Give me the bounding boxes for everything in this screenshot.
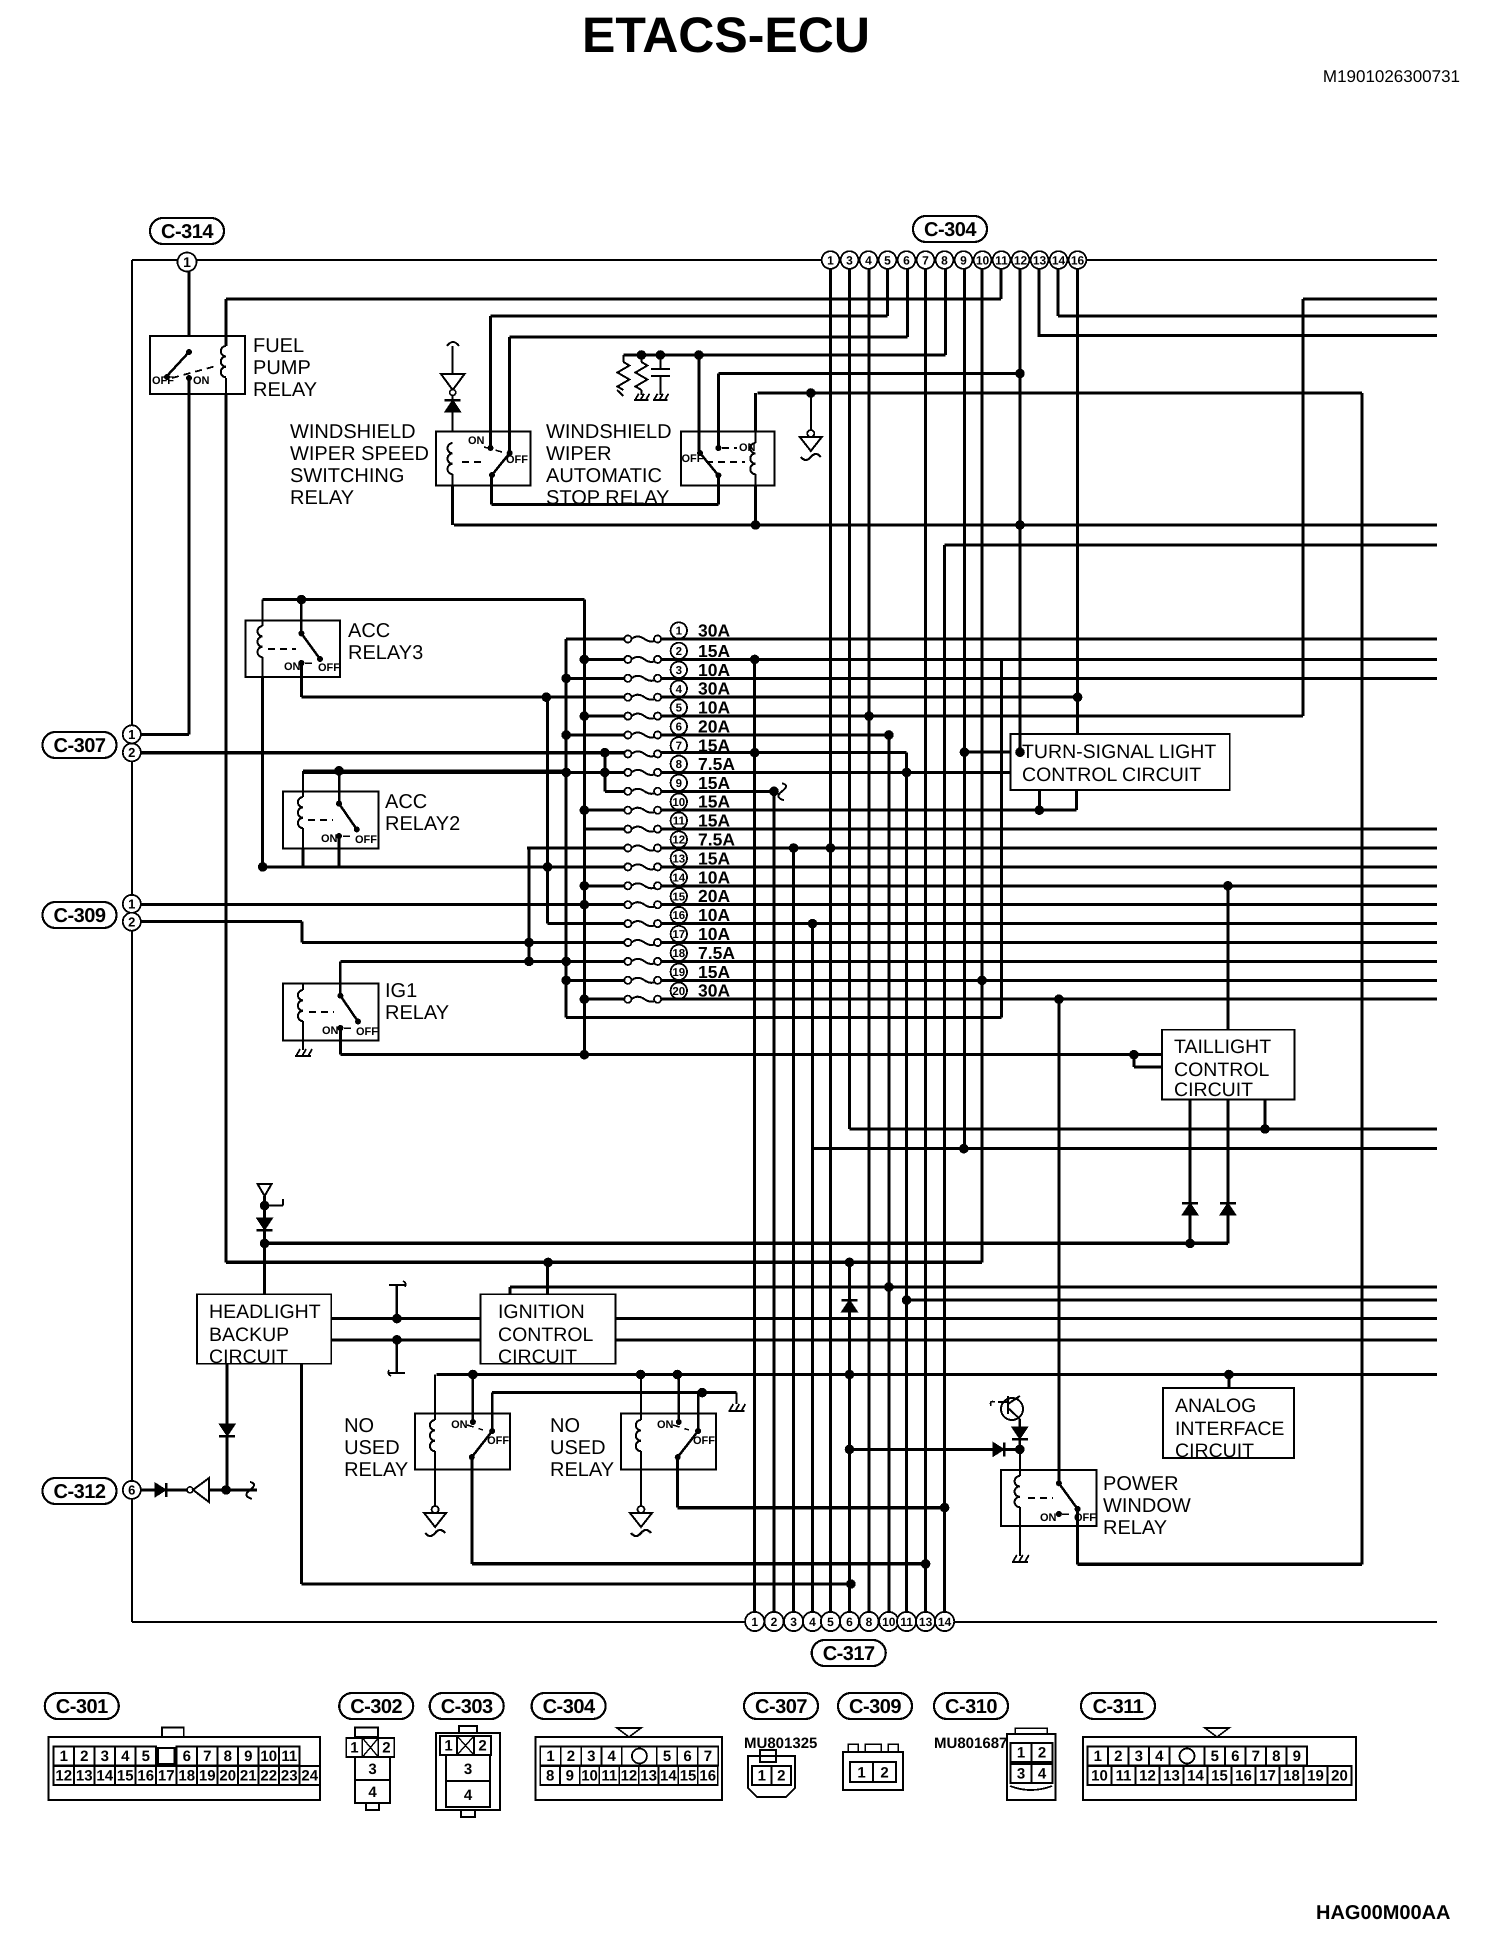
svg-text:RELAY3: RELAY3 xyxy=(348,642,423,664)
wire taillight feeder xyxy=(1226,886,1229,1030)
svg-text:WINDSHIELD: WINDSHIELD xyxy=(546,421,672,443)
relay K8 coil xyxy=(1012,1449,1029,1562)
connector C-307 pinout xyxy=(748,1750,795,1797)
wire y1449 run xyxy=(845,1442,1025,1456)
svg-text:4: 4 xyxy=(464,1787,473,1804)
svg-text:SWITCHING: SWITCHING xyxy=(290,465,404,487)
wire C-312 line xyxy=(141,1478,257,1502)
svg-text:12: 12 xyxy=(672,835,685,847)
svg-text:1: 1 xyxy=(350,1740,358,1757)
relay K1 coil xyxy=(221,299,226,1262)
wire ignition feeder xyxy=(546,1262,549,1294)
svg-text:ANALOG: ANALOG xyxy=(1175,1395,1256,1417)
svg-text:4: 4 xyxy=(368,1784,377,1801)
wire x1303 riser (fuse5 to y299) xyxy=(1302,299,1305,716)
wire fuse6 left xyxy=(561,730,624,740)
wire headlight right drop xyxy=(301,1364,855,1589)
connector label C-310 pinout label xyxy=(934,1693,1008,1719)
svg-text:ON: ON xyxy=(322,1025,339,1037)
connector label C-303 xyxy=(430,1693,504,1719)
svg-text:3: 3 xyxy=(587,1748,595,1765)
svg-text:2: 2 xyxy=(880,1765,888,1782)
svg-text:5: 5 xyxy=(1211,1748,1219,1765)
relay K3 switch xyxy=(682,442,756,478)
svg-text:USED: USED xyxy=(550,1437,606,1459)
wire fuse11 left xyxy=(584,828,624,831)
node C-309 pin 1 xyxy=(123,895,141,913)
svg-text:C-302: C-302 xyxy=(350,1696,402,1718)
svg-text:C-311: C-311 xyxy=(1093,1696,1144,1718)
svg-text:12: 12 xyxy=(1139,1768,1156,1785)
fuse F1 30A xyxy=(624,635,631,642)
fuse F19 15A xyxy=(624,977,631,984)
svg-text:WIPER SPEED: WIPER SPEED xyxy=(290,443,429,465)
svg-text:3: 3 xyxy=(846,253,853,267)
wire C-317 pin1 riser xyxy=(753,659,756,1612)
svg-text:11: 11 xyxy=(1116,1768,1132,1785)
relay K5 switch xyxy=(308,771,377,846)
resistor R2 xyxy=(634,350,649,400)
svg-text:3: 3 xyxy=(1017,1766,1025,1783)
svg-text:8: 8 xyxy=(676,759,683,771)
wire ACC relay2 top run xyxy=(303,766,566,776)
wire C-317 pin10 riser xyxy=(887,735,890,1612)
wire turn-signal bottom stubs xyxy=(1039,790,1076,810)
label IG1 RELAY xyxy=(385,980,449,1024)
relay K3 ON feed xyxy=(717,374,720,449)
svg-text:2: 2 xyxy=(1038,1745,1046,1762)
wire y299 right segment xyxy=(1303,298,1437,301)
node C-304 pin 14 xyxy=(1050,251,1068,269)
wire no-used pivot run xyxy=(492,1388,736,1398)
relay K4 coil xyxy=(257,600,262,867)
wire C-314 pin1 to fuel pump relay xyxy=(188,271,191,336)
relay K2 WINDSHIELD WIPER SPEED SWITCHING RELAY box xyxy=(436,432,531,486)
svg-text:14: 14 xyxy=(672,872,685,884)
relay K7-2 coil xyxy=(630,1375,652,1537)
svg-text:1: 1 xyxy=(758,1768,766,1785)
svg-text:13: 13 xyxy=(76,1768,93,1785)
relay K6 IG1 RELAY box xyxy=(283,983,378,1040)
svg-text:6: 6 xyxy=(1231,1748,1239,1765)
svg-text:2: 2 xyxy=(1114,1748,1122,1765)
svg-text:RELAY2: RELAY2 xyxy=(385,813,460,835)
svg-text:NO: NO xyxy=(344,1415,374,1437)
svg-text:NO: NO xyxy=(550,1415,580,1437)
svg-text:14: 14 xyxy=(660,1768,677,1785)
node C-304 pin 8 xyxy=(936,251,954,269)
wire C-317 pin14 riser xyxy=(943,545,946,1612)
connector label C-314 xyxy=(150,218,224,244)
wire taillight third pin xyxy=(1264,1099,1267,1129)
svg-text:1: 1 xyxy=(857,1765,865,1782)
relay K3 coil xyxy=(750,393,760,530)
junction y523 crossing dot xyxy=(1019,522,1021,524)
fuse F9 15A xyxy=(624,788,631,795)
svg-text:13: 13 xyxy=(1033,253,1047,267)
svg-text:RELAY: RELAY xyxy=(253,379,317,401)
svg-text:19: 19 xyxy=(672,967,685,979)
wire feeder A x566 xyxy=(566,639,1001,1017)
capacitor C1 xyxy=(651,350,670,400)
svg-text:3: 3 xyxy=(368,1761,376,1778)
connector label C-304 xyxy=(913,216,987,242)
svg-text:C-317: C-317 xyxy=(823,1643,875,1665)
wire fuse14 right xyxy=(661,881,1437,891)
svg-text:1: 1 xyxy=(1094,1748,1102,1765)
node C-304 pin 10 xyxy=(974,251,992,269)
connector label C-309 pinout label xyxy=(838,1693,912,1719)
svg-text:ON: ON xyxy=(451,1419,468,1431)
wire y1300 run xyxy=(902,1295,1437,1305)
svg-text:8: 8 xyxy=(866,1615,873,1629)
wire fuse5 left xyxy=(580,711,625,721)
relay K5 ACC RELAY 2 box xyxy=(283,791,378,848)
svg-text:6: 6 xyxy=(183,1748,191,1765)
stub lower capacitor mark xyxy=(388,1340,405,1376)
fuse F12 7.5A xyxy=(624,844,631,851)
svg-text:ON: ON xyxy=(321,833,338,845)
svg-text:14: 14 xyxy=(96,1768,113,1785)
wire wiper coil return xyxy=(454,524,1437,527)
node C-307 pin 1 xyxy=(123,725,141,743)
svg-text:11: 11 xyxy=(900,1615,913,1629)
wire feeder E x529 xyxy=(524,848,534,966)
svg-text:ON: ON xyxy=(193,375,210,387)
wire C-304 pin6 drop xyxy=(906,269,909,337)
wire pin8 feed (wiper stop RC) xyxy=(623,353,945,356)
svg-text:6: 6 xyxy=(846,1615,853,1629)
svg-text:AUTOMATIC: AUTOMATIC xyxy=(546,465,662,487)
wire x1001 riser xyxy=(1000,659,1003,1017)
relay K5 coil xyxy=(298,771,303,867)
svg-text:14: 14 xyxy=(1052,253,1066,267)
svg-text:WINDOW: WINDOW xyxy=(1103,1495,1191,1517)
svg-text:RELAY: RELAY xyxy=(385,1002,449,1024)
svg-text:11: 11 xyxy=(995,253,1008,267)
connector label C-307 xyxy=(43,732,117,758)
connector label C-312 xyxy=(43,1478,117,1504)
svg-text:8: 8 xyxy=(941,253,948,267)
wire fuse6 right xyxy=(661,730,893,740)
wire pin6 feed (wiper speed OFF) xyxy=(510,336,908,339)
fuse F2 15A xyxy=(624,656,631,663)
node C-312 pin 6 xyxy=(123,1481,141,1499)
svg-text:RELAY: RELAY xyxy=(344,1459,408,1481)
svg-text:2: 2 xyxy=(777,1768,785,1785)
wire fuse1 left xyxy=(566,638,624,641)
wire C-317 pin11 riser xyxy=(905,753,908,1612)
label ACC RELAY 2 xyxy=(385,791,460,835)
svg-text:15: 15 xyxy=(117,1768,134,1785)
node C-317 pin 10 xyxy=(879,1612,898,1631)
svg-text:2: 2 xyxy=(478,1738,486,1755)
svg-text:8: 8 xyxy=(546,1768,554,1785)
svg-text:13: 13 xyxy=(919,1615,933,1629)
svg-text:8: 8 xyxy=(1272,1748,1280,1765)
svg-text:PUMP: PUMP xyxy=(253,357,311,379)
wire fuse14 left xyxy=(580,881,625,891)
wire fuse13 right xyxy=(661,865,1437,868)
connector C-311 pinout xyxy=(1083,1728,1356,1800)
relay K6 coil xyxy=(295,983,312,1056)
svg-text:OFF: OFF xyxy=(152,375,174,387)
wire C-307 pin1 run xyxy=(141,733,189,736)
wire fuse7 right xyxy=(661,748,906,758)
svg-text:RELAY: RELAY xyxy=(290,487,354,509)
svg-text:23: 23 xyxy=(281,1768,298,1785)
svg-text:MU801325: MU801325 xyxy=(744,1735,817,1752)
wire y1129 run xyxy=(850,1124,1438,1134)
svg-text:4: 4 xyxy=(676,684,683,696)
wire analog feeder xyxy=(1227,1376,1230,1389)
node C-314 pin 1 xyxy=(178,253,197,272)
wire feeder C x546 xyxy=(543,697,625,923)
node C-304 pin 3 xyxy=(841,251,859,269)
wire C-307 pin2 to fuse7 xyxy=(141,751,625,754)
connector C-310 pinout xyxy=(1007,1728,1056,1800)
transistor Q1 xyxy=(991,1396,1024,1427)
svg-text:17: 17 xyxy=(672,929,685,941)
node C-304 pin 1 xyxy=(822,251,840,269)
wire fuse8 right xyxy=(661,768,1010,778)
svg-text:2: 2 xyxy=(567,1748,575,1765)
svg-text:9: 9 xyxy=(676,778,682,790)
svg-text:CONTROL: CONTROL xyxy=(498,1324,593,1346)
svg-text:M1901026300731: M1901026300731 xyxy=(1323,67,1460,86)
node C-304 pin 9 xyxy=(955,251,973,269)
node C-309 pin 2 xyxy=(123,913,141,931)
connector label C-304 pinout label xyxy=(532,1693,606,1719)
wire fuse17 right xyxy=(661,941,1437,944)
wire C-317 pin6 riser xyxy=(848,1262,851,1612)
wire fuse10 left xyxy=(580,805,625,815)
wire bottom C-317 line xyxy=(132,1621,1437,1623)
node C-307 pin 2 xyxy=(123,743,141,761)
wire C-304 pin5 drop xyxy=(886,269,889,316)
box IGNITION CONTROL CIRCUIT xyxy=(481,1294,616,1368)
svg-text:CIRCUIT: CIRCUIT xyxy=(1175,1440,1254,1462)
svg-text:7: 7 xyxy=(676,741,682,753)
wire IG1 pivot feed (fuse18 row) xyxy=(340,960,566,963)
wire x1362 drop (coil run to power window) xyxy=(1360,393,1363,1564)
svg-text:CONTROL CIRCUIT: CONTROL CIRCUIT xyxy=(1022,764,1201,786)
connector C-301 pinout xyxy=(49,1728,320,1801)
wire C-309 pin2 to fuse17 jog xyxy=(141,922,625,943)
svg-text:10: 10 xyxy=(1091,1768,1108,1785)
svg-text:WINDSHIELD: WINDSHIELD xyxy=(290,421,416,443)
junction dots on pin8 RC line xyxy=(698,354,700,356)
wire headlight-ignition link upper xyxy=(331,1314,480,1324)
svg-text:MU801687: MU801687 xyxy=(934,1735,1007,1752)
wire C-304 pin13 drop xyxy=(1038,269,1041,337)
wire fuse12 left xyxy=(527,847,624,850)
svg-text:13: 13 xyxy=(672,854,685,866)
svg-text:9: 9 xyxy=(244,1748,252,1765)
wire pin12 feed (wiper stop ON) xyxy=(718,372,1020,375)
svg-text:C-309: C-309 xyxy=(849,1696,901,1718)
relay K7-2 NO USED RELAY box xyxy=(621,1414,716,1470)
svg-text:ON: ON xyxy=(657,1419,674,1431)
svg-text:13: 13 xyxy=(1163,1768,1180,1785)
wire fuse2 left xyxy=(580,655,625,665)
label WINDSHIELD WIPER AUTOMATIC STOP RELAY xyxy=(546,421,672,509)
svg-text:5: 5 xyxy=(827,1615,834,1629)
ground for pivot run xyxy=(728,1393,745,1411)
wire fuse20 right xyxy=(661,994,1437,1004)
svg-text:CONTROL: CONTROL xyxy=(1174,1059,1269,1081)
relay K4 ACC RELAY 3 box xyxy=(246,620,341,677)
svg-text:15: 15 xyxy=(1211,1768,1228,1785)
svg-text:1: 1 xyxy=(751,1615,758,1629)
relay K7-1 switch xyxy=(451,1375,509,1461)
connector C-309 pinout xyxy=(843,1744,903,1790)
relay K2 input symbol chain xyxy=(441,342,465,432)
svg-text:OFF: OFF xyxy=(318,662,340,674)
wire ACC relay3 top run xyxy=(263,595,585,605)
fuse F16 10A xyxy=(624,920,631,927)
svg-text:1: 1 xyxy=(546,1748,554,1765)
svg-text:OFF: OFF xyxy=(693,1435,715,1447)
svg-text:OFF: OFF xyxy=(355,834,377,846)
relay K8 POWER WINDOW RELAY box xyxy=(1001,1470,1097,1526)
fuse F10 15A xyxy=(624,807,631,814)
svg-text:FUEL: FUEL xyxy=(253,335,304,357)
stub upper capacitor mark xyxy=(389,1281,406,1319)
relay K8 switch xyxy=(1028,999,1096,1524)
wire K2 bottom contact xyxy=(490,475,493,505)
svg-text:15: 15 xyxy=(672,891,685,903)
wire wiper stop coil run xyxy=(757,392,1361,395)
wire pin14 right run xyxy=(1058,315,1437,318)
riser junction dots xyxy=(848,1261,850,1263)
relay K7-1 coil xyxy=(424,1375,446,1537)
svg-text:3: 3 xyxy=(790,1615,797,1629)
node C-317 pin 13 xyxy=(916,1612,935,1631)
node C-317 pin 4 xyxy=(803,1612,822,1631)
node C-304 pin 12 xyxy=(1012,251,1030,269)
label NO USED RELAY 2 xyxy=(550,1415,614,1481)
svg-text:12: 12 xyxy=(55,1768,72,1785)
wire taillight left jog xyxy=(1134,1055,1162,1067)
relay K1 switch xyxy=(152,349,216,387)
fuse F5 10A xyxy=(624,713,631,720)
svg-text:10: 10 xyxy=(882,1615,896,1629)
svg-text:2: 2 xyxy=(382,1740,390,1757)
wire power window OFF link xyxy=(1078,1563,1362,1566)
svg-text:10: 10 xyxy=(672,797,685,809)
svg-text:20: 20 xyxy=(672,986,685,998)
svg-text:C-304: C-304 xyxy=(543,1696,596,1718)
wire fuse19 right xyxy=(661,976,1437,986)
wire fuse10 right xyxy=(661,805,1076,815)
svg-text:1: 1 xyxy=(183,254,191,270)
wire C-304 pin4 column xyxy=(868,269,871,1612)
svg-text:1: 1 xyxy=(827,253,834,267)
wire fuse18 left xyxy=(561,957,624,967)
svg-text:2: 2 xyxy=(80,1748,88,1765)
svg-text:11: 11 xyxy=(601,1768,617,1785)
svg-text:15: 15 xyxy=(680,1768,697,1785)
wire C-317 pin3 riser xyxy=(792,848,795,1612)
wire y1507 link xyxy=(678,1503,950,1513)
svg-text:17: 17 xyxy=(158,1768,175,1785)
wire fuse8 left (ACC relay2 run) xyxy=(303,768,624,778)
svg-text:CIRCUIT: CIRCUIT xyxy=(1174,1079,1253,1101)
svg-text:OFF: OFF xyxy=(506,454,528,466)
node C-317 pin 2 xyxy=(764,1612,783,1631)
svg-text:1: 1 xyxy=(128,727,135,742)
node C-304 pin 5 xyxy=(879,251,897,269)
wire no-used1 bottom drop xyxy=(470,1457,473,1564)
relay K7-1 NO USED RELAY box xyxy=(415,1414,510,1470)
wire y1563 link xyxy=(472,1559,931,1569)
wire pin11 feed (fuel pump coil) xyxy=(226,297,1001,300)
svg-text:ACC: ACC xyxy=(385,791,427,813)
wire fuse12 right xyxy=(661,843,1437,853)
wire K5 ON drop xyxy=(338,836,341,867)
junction y374 dot xyxy=(1015,369,1025,379)
wire y1243 run (headlight feed) xyxy=(260,1239,1228,1249)
relay K1 FUEL PUMP RELAY box xyxy=(150,336,245,394)
svg-text:11: 11 xyxy=(281,1748,297,1765)
label POWER WINDOW RELAY xyxy=(1103,1473,1191,1539)
wire fuse20 left xyxy=(580,994,625,1004)
svg-text:18: 18 xyxy=(672,948,685,960)
svg-text:C-309: C-309 xyxy=(54,905,106,927)
relay K2 coil xyxy=(448,443,453,525)
svg-text:C-314: C-314 xyxy=(161,221,214,243)
relay K6 switch xyxy=(309,961,378,1038)
svg-text:RELAY: RELAY xyxy=(550,1459,614,1481)
svg-text:OFF: OFF xyxy=(487,1435,509,1447)
svg-text:2: 2 xyxy=(771,1615,778,1629)
wire y1262 run xyxy=(226,1258,982,1268)
box TAILLIGHT CONTROL CIRCUIT xyxy=(1162,1030,1295,1101)
svg-text:2: 2 xyxy=(128,745,135,760)
node C-317 pin 8 xyxy=(859,1612,878,1631)
node C-304 pin 16 xyxy=(1069,251,1087,269)
svg-text:7: 7 xyxy=(1252,1748,1260,1765)
svg-text:1: 1 xyxy=(444,1738,452,1755)
connector C-304 pinout xyxy=(535,1728,722,1800)
relay K3 pivot feed xyxy=(694,350,704,453)
wire K6 ON run to taillight xyxy=(340,1028,1138,1059)
svg-text:3: 3 xyxy=(676,665,682,677)
node C-317 pin 1 xyxy=(745,1612,764,1631)
connector label C-301 xyxy=(45,1693,119,1719)
wire C-304 pin11 drop xyxy=(1000,269,1003,299)
connector label C-302 xyxy=(339,1693,413,1719)
node C-317 pin 11 xyxy=(897,1612,916,1631)
svg-text:CIRCUIT: CIRCUIT xyxy=(209,1346,288,1368)
svg-text:3: 3 xyxy=(464,1761,472,1778)
wire no-used top run xyxy=(436,1370,1437,1380)
svg-text:7: 7 xyxy=(203,1748,211,1765)
node C-317 pin 6 xyxy=(840,1612,859,1631)
svg-text:C-310: C-310 xyxy=(945,1696,997,1718)
diode D6 on pin6 riser xyxy=(842,1299,858,1302)
node C-304 pin 13 xyxy=(1031,251,1049,269)
box HEADLIGHT BACKUP CIRCUIT xyxy=(197,1294,331,1368)
fuse F17 10A xyxy=(624,939,631,946)
svg-text:16: 16 xyxy=(1071,253,1085,267)
svg-text:4: 4 xyxy=(121,1748,130,1765)
svg-text:10: 10 xyxy=(260,1748,277,1765)
svg-text:HAG00M00AA: HAG00M00AA xyxy=(1316,1902,1450,1924)
wire fuse15 right xyxy=(661,903,1437,906)
wire headlight-ignition link lower xyxy=(331,1335,480,1345)
